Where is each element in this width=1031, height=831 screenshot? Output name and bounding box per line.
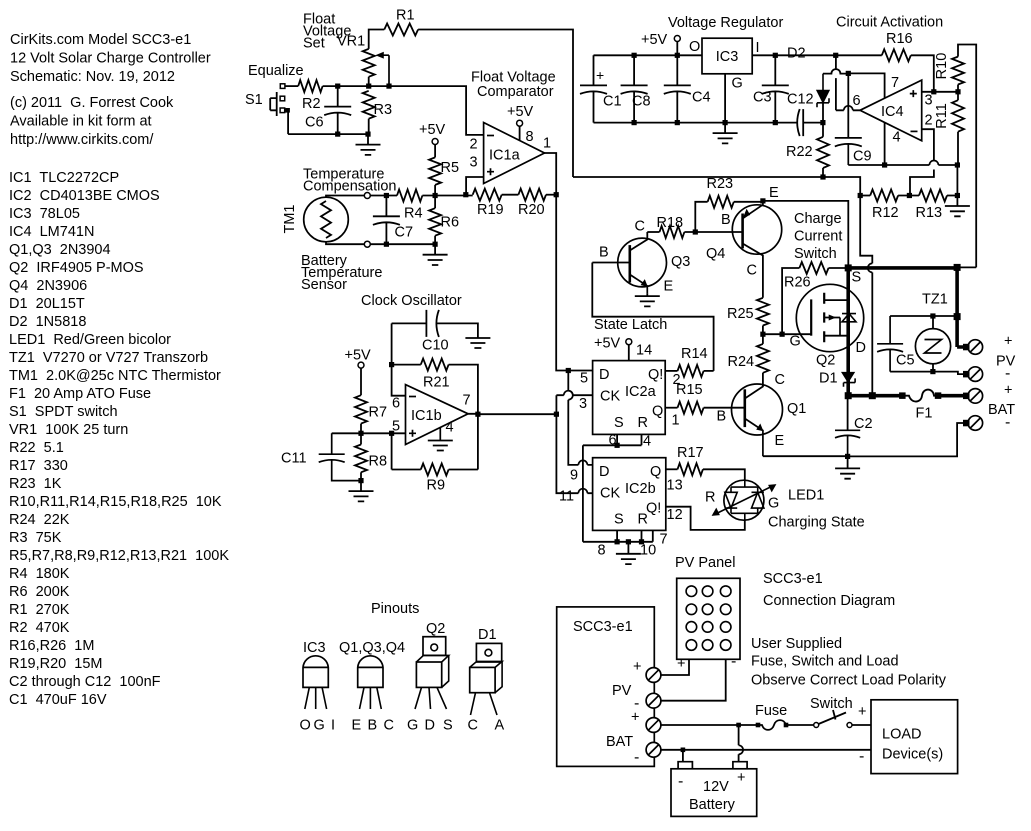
svg-text:9: 9 bbox=[570, 468, 578, 484]
capacitor C8 bbox=[621, 55, 648, 122]
svg-text:12: 12 bbox=[667, 507, 683, 523]
wire top rail left bbox=[594, 54, 703, 56]
svg-text:D2 1N5818: D2 1N5818 bbox=[9, 314, 86, 330]
wire R17 to LED bbox=[703, 469, 745, 480]
svg-text:1: 1 bbox=[543, 136, 551, 152]
svg-text:Compensation: Compensation bbox=[303, 179, 397, 195]
node C3 bottom bbox=[773, 120, 778, 125]
node R3 bottom junction bbox=[365, 132, 370, 137]
ground below R8 bbox=[349, 481, 374, 502]
wire R10 top bbox=[958, 45, 976, 268]
node G ground junction bbox=[723, 120, 728, 125]
potentiometer VR1 body bbox=[363, 49, 375, 77]
svg-text:R20: R20 bbox=[518, 202, 545, 218]
+5V terminal R7 bbox=[358, 362, 364, 368]
svg-text:Q2: Q2 bbox=[426, 621, 445, 637]
svg-text:S: S bbox=[614, 415, 624, 431]
svg-text:A: A bbox=[495, 718, 505, 734]
op-amp IC1a plus sign bbox=[487, 168, 494, 175]
wire +5V stub bbox=[676, 42, 678, 56]
ground C10 bbox=[465, 338, 490, 348]
svg-text:R23: R23 bbox=[707, 176, 734, 192]
svg-text:C2 through C12 100nF: C2 through C12 100nF bbox=[9, 674, 161, 690]
wire Qbar2 row bbox=[665, 370, 677, 372]
capacitor C11 bbox=[319, 433, 361, 480]
wire VR1 top to R1 bbox=[369, 30, 385, 49]
hop CK11 over SR riser bbox=[578, 489, 587, 494]
wire R3 bottom bbox=[368, 119, 370, 134]
svg-text:S1: S1 bbox=[245, 92, 263, 108]
transistor Q4 emitter bbox=[743, 201, 763, 219]
wire IC4 out to rail bbox=[836, 55, 860, 110]
wire TM1 bottom bbox=[326, 242, 364, 244]
wire Qbar12 to LED bbox=[666, 507, 745, 530]
svg-text:7: 7 bbox=[891, 75, 899, 91]
svg-text:C7: C7 bbox=[395, 225, 414, 241]
transzorb TZ1 body bbox=[915, 329, 950, 364]
wire node row y195 right bbox=[422, 195, 472, 197]
wire IC4 pin2 path bbox=[910, 129, 934, 195]
wire TZ1 stubs bbox=[932, 316, 934, 372]
svg-text:R5,R7,R8,R9,R12,R13,R21 100K: R5,R7,R8,R9,R12,R13,R21 100K bbox=[9, 548, 229, 564]
terminal pad PV- bbox=[963, 371, 970, 378]
svg-text:F1: F1 bbox=[916, 406, 933, 422]
connection terminal BAT+ bbox=[646, 718, 661, 733]
node C7 top junction bbox=[384, 193, 389, 198]
svg-text:C1 470uF 16V: C1 470uF 16V bbox=[9, 692, 107, 708]
switch S1 lever bar bbox=[270, 92, 277, 116]
pv panel cells bbox=[686, 586, 697, 597]
pinout Q2 package bbox=[423, 637, 446, 656]
svg-text:Q3: Q3 bbox=[671, 254, 690, 270]
resistor R10 bbox=[952, 57, 964, 85]
wire +12 line y177 right bbox=[823, 177, 860, 196]
svg-text:C: C bbox=[468, 718, 478, 734]
svg-text:R16: R16 bbox=[886, 31, 913, 47]
capacitor C4 bbox=[664, 55, 691, 122]
wire IC1a out to D5 bbox=[556, 195, 592, 371]
op-amp IC1a minus sign bbox=[487, 135, 494, 137]
svg-text:R1 270K: R1 270K bbox=[9, 602, 70, 618]
wire SR riser bbox=[582, 445, 584, 542]
wire IC3 G pin bbox=[724, 74, 726, 123]
hop D9 over CK3 bbox=[568, 391, 573, 400]
wire bottom row y244 bbox=[370, 243, 435, 245]
svg-text:B: B bbox=[599, 245, 609, 261]
transistor Q3 emitter bbox=[630, 275, 648, 294]
capacitor C1 bbox=[580, 55, 607, 122]
ground below Q3 bbox=[635, 293, 660, 306]
svg-text:Switch: Switch bbox=[794, 246, 837, 262]
node C6 bottom junction bbox=[335, 132, 340, 137]
wire R10 bottom bbox=[957, 85, 959, 92]
node S6 junction bbox=[615, 443, 620, 448]
svg-text:O: O bbox=[689, 39, 700, 55]
mosfet Q2 body bbox=[796, 284, 863, 351]
svg-text:Sensor: Sensor bbox=[301, 277, 347, 293]
diode D2 bbox=[817, 74, 829, 108]
connection terminal PV+ bbox=[646, 668, 661, 683]
svg-text:SCC3-e1: SCC3-e1 bbox=[763, 571, 823, 587]
terminal screw PV+ bbox=[968, 340, 983, 355]
svg-text:Fuse: Fuse bbox=[755, 703, 787, 719]
svg-text:Connection Diagram: Connection Diagram bbox=[763, 593, 895, 609]
wire R11 bottom bbox=[956, 132, 959, 196]
node Q4 emitter junction bbox=[760, 198, 765, 203]
node C8 bottom bbox=[632, 120, 637, 125]
svg-text:R10: R10 bbox=[934, 53, 950, 80]
thick wire Q2 vertical bbox=[846, 268, 850, 396]
svg-text:G: G bbox=[407, 718, 418, 734]
svg-text:2: 2 bbox=[470, 137, 478, 153]
node rail D2 top junction bbox=[833, 53, 838, 58]
node C7 bottom junction bbox=[384, 242, 389, 247]
svg-text:C6: C6 bbox=[305, 115, 324, 131]
svg-text:IC1a: IC1a bbox=[489, 148, 521, 164]
resistor R11 bbox=[952, 100, 964, 132]
ground below latch bbox=[616, 542, 641, 564]
mosfet Q2 channel bar bbox=[823, 293, 825, 342]
transzorb TZ1 symbol bbox=[925, 340, 942, 354]
resistor R21 bbox=[421, 359, 449, 371]
ground below R3 bbox=[356, 134, 381, 155]
wire D9 riser bbox=[568, 371, 592, 465]
svg-text:+: + bbox=[737, 770, 745, 786]
svg-text:D1: D1 bbox=[819, 371, 838, 387]
wire R13 right bbox=[947, 195, 957, 197]
switch S1 contacts bbox=[280, 84, 285, 89]
svg-text:7: 7 bbox=[463, 393, 471, 409]
svg-text:10: 10 bbox=[640, 543, 656, 559]
capacitor C5 bbox=[877, 316, 903, 372]
wire IC4 pin4 bbox=[884, 123, 886, 166]
svg-text:http://www.cirkits.com/: http://www.cirkits.com/ bbox=[10, 132, 154, 148]
svg-text:7: 7 bbox=[660, 532, 668, 548]
ground below IC3 G bbox=[713, 123, 738, 144]
+5V terminal regulator bbox=[674, 36, 680, 42]
svg-text:User Supplied: User Supplied bbox=[751, 636, 842, 652]
svg-text:Comparator: Comparator bbox=[477, 84, 554, 100]
svg-text:+5V: +5V bbox=[507, 104, 534, 120]
node battery minus tap bbox=[681, 748, 686, 753]
capacitor C3 bbox=[762, 55, 789, 122]
wire R9 left bbox=[392, 469, 421, 471]
wire node row y195 bbox=[370, 195, 397, 197]
resistor R14 bbox=[678, 365, 704, 377]
svg-text:R24: R24 bbox=[728, 354, 755, 370]
svg-text:12 Volt Solar Charge Controlle: 12 Volt Solar Charge Controller bbox=[10, 51, 211, 67]
node IC1b out junction bbox=[475, 412, 480, 417]
wire TZ1 top rail bbox=[890, 315, 957, 317]
resistor R17 bbox=[678, 463, 703, 475]
wire G row bbox=[763, 333, 811, 335]
svg-text:R23 1K: R23 1K bbox=[9, 476, 62, 492]
node C6 top junction bbox=[335, 84, 340, 89]
svg-text:CK: CK bbox=[600, 486, 620, 502]
svg-text:+5V: +5V bbox=[345, 348, 372, 364]
transistor Q1 collector bbox=[745, 373, 763, 399]
op-amp IC1b bbox=[406, 385, 469, 445]
wire C10 left down bbox=[391, 323, 393, 364]
hop battery sense over S rail bbox=[868, 263, 873, 272]
node TZ1 top junction bbox=[930, 313, 935, 318]
wire CK3 row bbox=[556, 394, 592, 396]
svg-text:State Latch: State Latch bbox=[594, 317, 667, 333]
wire R24 top bbox=[762, 334, 764, 344]
wire +5V to R5 bbox=[434, 145, 436, 158]
switch lever bbox=[819, 710, 847, 724]
svg-text:+: + bbox=[631, 710, 639, 726]
svg-text:Clock Oscillator: Clock Oscillator bbox=[361, 293, 462, 309]
wire IC1a output pin1 bbox=[545, 153, 557, 195]
thick wire BAT rail bbox=[848, 394, 966, 398]
svg-text:8: 8 bbox=[526, 129, 534, 145]
node battery plus tap bbox=[736, 723, 741, 728]
wire pin7 node to IC4 bbox=[848, 73, 884, 98]
fuse conn right pad bbox=[784, 723, 789, 728]
wire R26 left bbox=[782, 268, 799, 334]
node R26 G junction bbox=[780, 332, 785, 337]
svg-text:PV Panel: PV Panel bbox=[675, 555, 735, 571]
svg-text:R5: R5 bbox=[441, 160, 460, 176]
svg-text:(c) 2011 G. Forrest Cook: (c) 2011 G. Forrest Cook bbox=[10, 95, 174, 111]
node R22 y177 junction bbox=[820, 174, 825, 179]
wire D2 bottom bbox=[822, 103, 824, 123]
resistor R1 bbox=[384, 24, 418, 36]
wire R23 left bbox=[695, 202, 707, 232]
svg-text:TM1 2.0K@25c NTC Thermistor: TM1 2.0K@25c NTC Thermistor bbox=[9, 368, 221, 384]
svg-text:Current: Current bbox=[794, 229, 842, 245]
svg-text:C4: C4 bbox=[692, 90, 711, 106]
fuse conn bbox=[758, 720, 786, 730]
wire +5V to R7 bbox=[360, 368, 362, 395]
hop D9 row over SR riser bbox=[578, 460, 587, 465]
svg-text:R6: R6 bbox=[441, 215, 460, 231]
svg-text:-: - bbox=[678, 773, 683, 790]
wire BAT minus row bbox=[661, 749, 871, 751]
node pin3 R10R11 junction bbox=[955, 89, 960, 94]
node C4 bottom bbox=[675, 120, 680, 125]
wire R8 top bbox=[360, 433, 362, 444]
svg-text:R3: R3 bbox=[374, 102, 393, 118]
wire panel minus bbox=[661, 659, 726, 700]
op-amp IC4 bbox=[860, 80, 922, 141]
node R18 R23 junction bbox=[693, 229, 698, 234]
diode D1 schottky bbox=[842, 372, 854, 382]
node pin4 junction bbox=[882, 162, 887, 167]
svg-text:R22 5.1: R22 5.1 bbox=[9, 440, 64, 456]
mosfet Q2 body diode bbox=[842, 314, 856, 322]
resistor R19 bbox=[473, 189, 502, 201]
svg-text:R21: R21 bbox=[423, 375, 450, 391]
wire IC1a pin8 stub bbox=[519, 126, 521, 140]
+5V terminal latch bbox=[626, 339, 632, 345]
svg-text:R8: R8 bbox=[369, 454, 388, 470]
resistor R5 bbox=[429, 157, 441, 185]
svg-text:+5V: +5V bbox=[641, 32, 668, 48]
svg-text:6: 6 bbox=[853, 93, 861, 109]
svg-text:B: B bbox=[721, 212, 731, 228]
svg-text:2: 2 bbox=[925, 113, 933, 129]
svg-text:BAT: BAT bbox=[606, 734, 633, 750]
svg-text:Q1,Q3,Q4: Q1,Q3,Q4 bbox=[339, 640, 405, 656]
svg-text:+: + bbox=[596, 67, 604, 83]
resistor R24 bbox=[757, 344, 769, 373]
svg-text:R4: R4 bbox=[404, 206, 423, 222]
wire R25 bottom bbox=[762, 326, 764, 335]
resistor R9 bbox=[421, 464, 449, 476]
svg-text:IC1 TLC2272CP: IC1 TLC2272CP bbox=[9, 170, 119, 186]
svg-text:D1: D1 bbox=[478, 627, 497, 643]
svg-text:R10,R11,R14,R15,R18,R25 10K: R10,R11,R14,R15,R18,R25 10K bbox=[9, 494, 222, 510]
resistor R26 bbox=[799, 262, 828, 274]
node R13 right junction bbox=[955, 193, 960, 198]
resistor R18 bbox=[660, 226, 685, 238]
svg-text:R11: R11 bbox=[934, 103, 950, 129]
resistor R22 bbox=[817, 137, 829, 168]
svg-text:R7: R7 bbox=[369, 405, 388, 421]
svg-text:E: E bbox=[664, 279, 674, 295]
svg-text:IC2b: IC2b bbox=[625, 481, 656, 497]
svg-text:Schematic: Nov. 19, 2012: Schematic: Nov. 19, 2012 bbox=[10, 69, 175, 85]
svg-text:BAT: BAT bbox=[988, 402, 1015, 418]
wire battery sense riser bbox=[860, 196, 872, 396]
svg-text:D: D bbox=[856, 340, 866, 356]
thick wire S node rail bbox=[846, 266, 957, 270]
svg-text:14: 14 bbox=[636, 343, 652, 359]
wire R21 right bbox=[449, 365, 478, 470]
connection terminal BAT- bbox=[646, 742, 661, 757]
node C2 ground junction bbox=[845, 454, 850, 459]
terminal pad BAT- bbox=[963, 420, 970, 427]
svg-text:Charging State: Charging State bbox=[768, 515, 865, 531]
wire Q4 E to S rail bbox=[763, 201, 848, 268]
svg-text:TZ1 V7270 or V727 Transzorb: TZ1 V7270 or V727 Transzorb bbox=[9, 350, 208, 366]
svg-text:IC3: IC3 bbox=[716, 49, 739, 65]
node R19 left junction bbox=[463, 192, 468, 197]
capacitor C10 bbox=[392, 310, 445, 337]
terminal TM1 top bbox=[364, 193, 370, 199]
op-amp IC4 plus sign bbox=[910, 90, 917, 97]
wire node row y86 bbox=[323, 86, 484, 135]
wire TM1 top bbox=[326, 196, 364, 198]
svg-text:R: R bbox=[638, 415, 648, 431]
svg-text:R1: R1 bbox=[396, 8, 415, 24]
svg-text:Q1: Q1 bbox=[787, 401, 806, 417]
svg-text:D: D bbox=[599, 464, 609, 480]
svg-text:Set: Set bbox=[303, 36, 325, 52]
wire Q13 row bbox=[666, 468, 678, 470]
svg-text:+5V: +5V bbox=[419, 122, 446, 138]
thick wire PV riser bbox=[957, 266, 963, 347]
wire IC1b output bbox=[468, 413, 556, 415]
wire Q1 row bbox=[665, 407, 677, 409]
svg-text:LED1 Red/Green bicolor: LED1 Red/Green bicolor bbox=[9, 332, 171, 348]
pv panel box bbox=[677, 578, 740, 659]
svg-text:B: B bbox=[368, 718, 378, 734]
wire R9 right bbox=[449, 469, 478, 471]
svg-text:-: - bbox=[634, 749, 639, 766]
svg-text:R19,R20 15M: R19,R20 15M bbox=[9, 656, 103, 672]
svg-text:C5: C5 bbox=[896, 353, 915, 369]
wire R1 to +12V rail corner bbox=[418, 30, 573, 178]
wire Q1 emitter to ground rail bbox=[763, 455, 848, 457]
svg-text:C9: C9 bbox=[853, 149, 872, 165]
svg-text:R4 180K: R4 180K bbox=[9, 566, 70, 582]
wire IC1a pin3 input bbox=[466, 177, 484, 195]
battery box bbox=[671, 769, 757, 817]
node R9 pin5 junction bbox=[389, 431, 394, 436]
wire R20 right bbox=[546, 194, 556, 196]
svg-text:Q4 2N3906: Q4 2N3906 bbox=[9, 278, 87, 294]
node R12 left junction bbox=[858, 193, 863, 198]
flip-flop IC2b box bbox=[593, 458, 666, 531]
capacitor C6 bbox=[324, 86, 351, 134]
svg-text:11: 11 bbox=[559, 489, 574, 505]
wire R12-R13 bbox=[898, 195, 919, 197]
wire R6 bottom bbox=[434, 236, 436, 245]
terminal TM1 bottom bbox=[364, 241, 370, 247]
svg-text:Q4: Q4 bbox=[706, 246, 725, 262]
resistor R15 bbox=[678, 402, 704, 414]
svg-text:R3 75K: R3 75K bbox=[9, 530, 62, 546]
wire R7 bottom bbox=[360, 424, 362, 434]
svg-text:Q: Q bbox=[650, 464, 661, 480]
node latch gnd junction bbox=[626, 539, 631, 544]
wire R12 left bbox=[860, 195, 870, 197]
mosfet Q2 gate bar bbox=[810, 299, 812, 335]
svg-text:3: 3 bbox=[579, 396, 587, 412]
load box bbox=[871, 700, 958, 774]
resistor R7 bbox=[355, 395, 367, 423]
node PV corner junction bbox=[954, 264, 961, 271]
svg-text:IC3 78L05: IC3 78L05 bbox=[9, 206, 80, 222]
svg-text:5: 5 bbox=[580, 371, 588, 387]
node PV plus tz junction bbox=[954, 313, 961, 320]
node R10pin junction bbox=[639, 539, 644, 544]
op-amp IC1b plus sign bbox=[409, 430, 416, 437]
capacitor C9 plates bbox=[835, 138, 862, 165]
svg-text:1: 1 bbox=[672, 413, 680, 429]
node G row left junction bbox=[760, 332, 765, 337]
capacitor C12 bbox=[797, 109, 823, 136]
svg-text:4: 4 bbox=[446, 420, 454, 436]
svg-text:R: R bbox=[638, 512, 648, 528]
svg-text:IC1b: IC1b bbox=[411, 408, 442, 424]
svg-text:R14: R14 bbox=[681, 346, 708, 362]
svg-text:C: C bbox=[384, 718, 394, 734]
svg-text:S1 SPDT switch: S1 SPDT switch bbox=[9, 404, 118, 420]
node VR1 wiper junction bbox=[386, 84, 391, 89]
wire SR rail IC2b bbox=[583, 530, 653, 541]
svg-text:C10: C10 bbox=[422, 338, 449, 354]
svg-text:E: E bbox=[352, 718, 362, 734]
svg-text:6: 6 bbox=[392, 396, 400, 412]
wire ground rail to BATminus bbox=[848, 423, 967, 456]
svg-text:F1 20 Amp ATO Fuse: F1 20 Amp ATO Fuse bbox=[9, 386, 151, 402]
svg-text:3: 3 bbox=[925, 93, 933, 109]
pinout IC3 package bbox=[303, 656, 328, 688]
resistor R25 bbox=[757, 298, 769, 326]
IC3 box bbox=[702, 38, 752, 74]
wire R8 bottom bbox=[360, 472, 362, 480]
svg-text:E: E bbox=[769, 185, 779, 201]
transistor Q3 body bbox=[618, 238, 667, 287]
svg-text:B: B bbox=[717, 409, 727, 425]
thermistor TM1 body bbox=[304, 197, 349, 242]
svg-text:-: - bbox=[1005, 365, 1010, 382]
svg-text:Charge: Charge bbox=[794, 211, 842, 227]
